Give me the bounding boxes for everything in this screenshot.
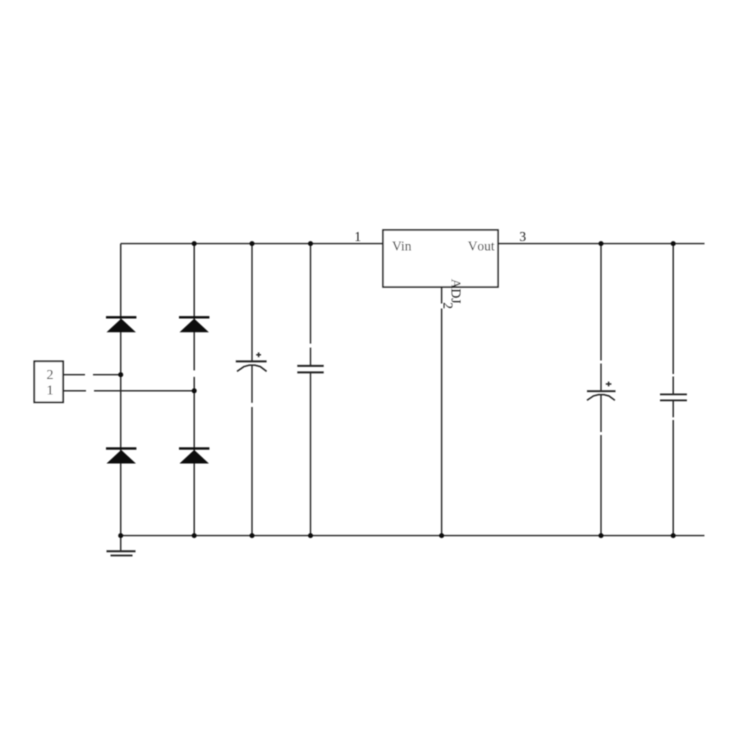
svg-text:ADJ: ADJ: [449, 279, 464, 304]
svg-text:2: 2: [47, 368, 54, 383]
svg-text:3: 3: [519, 229, 526, 244]
svg-text:2: 2: [441, 302, 456, 309]
wire C3 branch lower segment a: [600, 395, 602, 432]
wire C1 branch lower segment b: [251, 407, 253, 536]
junction node top rail x601: [599, 241, 604, 246]
wire connector pin 2 segment b: [93, 374, 121, 376]
junction node bottom rail x601: [599, 533, 604, 538]
wire C3 branch upper segment a: [600, 244, 602, 361]
wire C4 branch lower segment a: [672, 400, 674, 417]
capacitor C1 (electrolytic, input): [236, 361, 267, 371]
svg-text:Vin: Vin: [392, 238, 412, 253]
label C3 plus: [606, 382, 612, 387]
wire C3 branch upper segment b: [600, 364, 602, 392]
capacitor C3 (electrolytic, output): [587, 391, 616, 400]
junction node bottom rail x120: [118, 533, 123, 538]
junction node top rail x310: [308, 241, 313, 246]
label C1 plus: [256, 352, 261, 357]
junction node top rail x252: [250, 241, 255, 246]
diode D3 (bottom left): [106, 447, 136, 463]
wire C2 branch upper segment a: [310, 244, 312, 344]
capacitor C2 (ceramic, input): [297, 366, 323, 373]
wire C1 branch lower segment a: [251, 365, 253, 403]
wire C2 branch upper segment b: [310, 348, 312, 366]
wire right bridge branch upper segment: [193, 244, 195, 371]
capacitor C4 (ceramic, output): [660, 394, 687, 400]
junction node top rail x194: [192, 241, 197, 246]
wire C1 branch upper: [251, 244, 253, 362]
ground symbol: [107, 551, 136, 555]
wire ADJ pin lower segment: [441, 309, 443, 536]
wire connector pin 1 segment b: [94, 390, 194, 392]
wire bottom rail (ground net): [121, 535, 705, 537]
svg-text:Vout: Vout: [468, 238, 495, 253]
junction node bridge right mid: [192, 388, 197, 393]
wire C3 branch lower segment b: [600, 435, 602, 536]
svg-text:1: 1: [47, 384, 54, 399]
wire C4 branch upper segment a: [672, 244, 674, 374]
wire top rail right (output net): [498, 243, 705, 245]
wire connector pin 1 segment a: [63, 390, 86, 392]
wire C2 branch lower: [310, 372, 312, 535]
wire C4 branch lower segment b: [672, 420, 674, 536]
regulator U1 body: [383, 230, 498, 287]
junction node bottom rail x194: [192, 533, 197, 538]
wire C4 branch upper segment b: [672, 377, 674, 395]
wire right bridge branch lower segment: [193, 377, 195, 536]
diode D2 (top right): [179, 316, 209, 332]
wire ADJ pin upper segment: [441, 287, 443, 304]
svg-text:1: 1: [354, 229, 361, 244]
wire connector pin 2 segment a: [63, 374, 85, 376]
diode D1 (top left): [106, 316, 136, 332]
wire ground stub: [120, 536, 122, 551]
junction node bridge left mid: [118, 372, 123, 377]
junction node top rail x673: [671, 241, 676, 246]
junction node bottom rail x673: [671, 533, 676, 538]
junction node bottom rail x441: [439, 533, 444, 538]
junction node bottom rail x310: [308, 533, 313, 538]
diode D4 (bottom right): [179, 447, 209, 463]
junction node bottom rail x252: [250, 533, 255, 538]
wire left bridge branch: [120, 244, 122, 536]
wire top rail left (input net): [121, 243, 383, 245]
connector J1 body: [34, 361, 63, 402]
